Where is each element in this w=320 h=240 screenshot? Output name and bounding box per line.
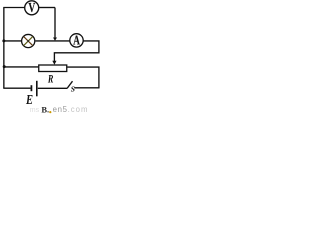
svg-text:R: R <box>47 73 54 86</box>
wire: top horizontal, left of voltmeter <box>3 7 24 9</box>
lamp L1: X diagonal BL-TR <box>24 37 33 46</box>
wire: battery to switch pivot <box>38 87 67 89</box>
svg-text:V: V <box>28 0 35 15</box>
node: junction dot left bus / lamp row <box>2 39 5 42</box>
svg-text:A: A <box>73 33 80 48</box>
wire: top horizontal, voltmeter to top-right corner <box>39 7 55 9</box>
lamp L1: circle <box>22 34 35 47</box>
wire: bottom left segment to battery <box>3 87 30 89</box>
wire: left bus to rheostat box <box>3 66 38 68</box>
battery E: short thick plate (negative) <box>31 85 33 91</box>
rheostat slider arrowhead <box>52 61 56 65</box>
wire: voltmeter branch vertical drop <box>54 8 56 38</box>
wire: switch to bottom-right corner <box>74 87 99 89</box>
wire: lamp row, left vertical to lamp <box>3 40 21 42</box>
resistor R (rheostat) box <box>39 65 67 72</box>
battery E: long thin plate (positive) <box>36 81 38 97</box>
lamp L1: X diagonal TL-BR <box>24 37 33 46</box>
switch S blade <box>67 81 73 88</box>
ammeter U2: circle <box>70 34 83 47</box>
svg-text:E: E <box>25 92 33 108</box>
svg-text:B.: B. <box>41 104 49 114</box>
wire: ammeter to right corner, down to slider feed <box>54 41 99 61</box>
wire: left vertical bus <box>3 8 5 89</box>
svg-text:ms: ms <box>30 107 40 114</box>
arrowhead of voltmeter branch onto lamp-ammeter node <box>53 38 57 41</box>
svg-text:en5.com: en5.com <box>53 105 89 114</box>
wire: rheostat right terminal to right-lower vertical down to bottom <box>67 67 99 88</box>
voltmeter U1: circle <box>25 1 39 15</box>
watermark: orange dot <box>49 111 51 113</box>
lamp L1: X center crossing <box>27 40 29 42</box>
svg-text:S: S <box>71 85 75 94</box>
wire: lamp to ammeter <box>35 40 69 42</box>
node: junction dot left bus / rheostat row <box>3 65 6 68</box>
